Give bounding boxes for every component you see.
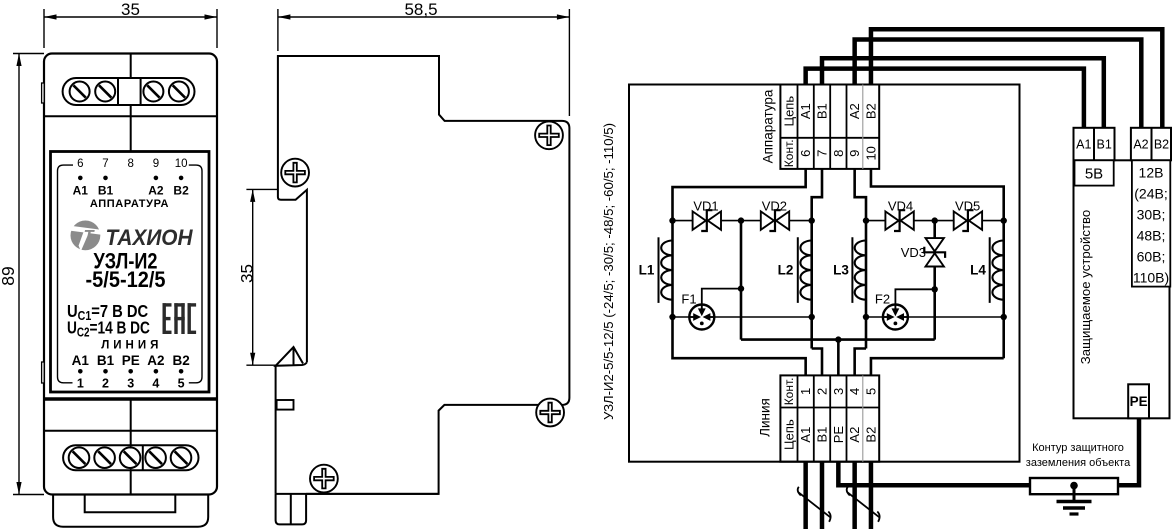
svg-text:A1: A1 [798,103,813,119]
screw bottom 5 [171,447,192,468]
screw bottom 2 [94,447,115,468]
svg-text:5: 5 [178,376,185,390]
screw top 1 [70,82,90,102]
svg-text:4: 4 [152,376,159,390]
svg-text:12В: 12В [1139,165,1164,181]
device terminals A1 B1 [1074,128,1115,161]
cable mark pair2 [847,487,880,522]
svg-text:9: 9 [153,158,159,170]
screw side C [310,465,338,493]
wire line A2 down [852,462,857,529]
svg-text:Конт.: Конт. [782,378,796,406]
svg-text:60В;: 60В; [1137,249,1166,265]
wire mid horizontal link [741,338,935,341]
svg-text:B1: B1 [1097,138,1112,152]
svg-text:4: 4 [847,388,862,395]
svg-text:3: 3 [831,388,846,395]
svg-text:АППАРАТУРА: АППАРАТУРА [90,198,169,210]
pin labels A1 B1 PE A2 B2 bottom [72,353,190,368]
screw side A [281,159,309,187]
svg-text:(24В;: (24В; [1134,186,1167,202]
svg-text:10: 10 [175,158,188,170]
ground bus bar [1030,478,1118,494]
screw bottom 4 [145,447,166,468]
svg-text:B2: B2 [863,103,878,119]
svg-text:6: 6 [77,158,83,170]
wire terminal6 to left rail [673,169,806,221]
wire VD row left [673,220,812,222]
svg-text:ТАХИОН: ТАХИОН [106,225,194,250]
screw bottom 1 [69,447,90,468]
svg-text:6: 6 [798,150,813,157]
svg-text:9: 9 [847,150,862,157]
svg-text:VD3: VD3 [901,245,926,260]
svg-text:B1: B1 [97,353,115,368]
svg-text:F1: F1 [681,292,696,307]
pin labels A1 B1 A2 B2 top [73,184,189,198]
protected device box [1074,160,1170,418]
svg-text:A2: A2 [847,103,862,119]
device 12V box [1132,160,1170,286]
screw bottom 3 [120,447,141,468]
svg-text:VD2: VD2 [762,198,787,213]
ground symbol [1057,482,1092,514]
wire B2 to device [871,29,1162,129]
wire terminal10 to right rail [871,169,1004,221]
wire left rail [671,221,674,317]
wire terminal7 to L2 rail [812,169,822,221]
svg-text:PE: PE [831,426,846,444]
svg-text:Контур защитного: Контур защитного [1032,442,1124,454]
wire PE to ground bus [838,462,1030,486]
module foot [53,495,208,527]
svg-text:VD1: VD1 [693,198,718,213]
svg-text:1: 1 [77,376,84,390]
wire F row right [866,316,1004,318]
svg-text:A2: A2 [847,427,862,443]
svg-text:B2: B2 [863,427,878,443]
terminal block Linia [780,375,879,461]
svg-text:Конт.: Конт. [782,139,796,167]
device terminals A2 B2 [1131,128,1171,161]
EAC mark [163,303,197,334]
svg-text:7: 7 [102,158,108,170]
svg-text:УЗЛ-И2-5/5-12/5 (-24/5; -30/5;: УЗЛ-И2-5/5-12/5 (-24/5; -30/5; -48/5; -6… [601,123,616,420]
wire F row left [673,316,812,318]
wire line B2 down [869,462,874,529]
svg-text:5: 5 [863,388,878,395]
wire F1 top link [702,289,741,317]
slot divider top [118,78,141,105]
device PE terminal [1128,384,1149,418]
svg-text:8: 8 [127,158,133,170]
svg-text:Л И Н И Я: Л И Н И Я [101,340,159,352]
pin numbers 1-5 [77,376,185,390]
svg-text:5В: 5В [1085,166,1103,183]
svg-text:VD4: VD4 [888,198,913,213]
terminal slot top [63,78,195,105]
wire right rail to terminal5 [871,358,1004,375]
svg-text:L2: L2 [778,263,794,278]
svg-text:PE: PE [1130,394,1148,409]
svg-text:58,5: 58,5 [404,0,437,19]
svg-text:2: 2 [102,376,109,390]
svg-text:10: 10 [863,146,878,160]
dimension 89 left [0,54,44,495]
svg-text:3: 3 [127,376,134,390]
wire F2 top link [895,289,934,317]
svg-text:A1: A1 [72,353,90,368]
svg-text:A2: A2 [1133,138,1148,152]
svg-text:30В;: 30В; [1137,207,1166,223]
terminal slot bottom [63,445,198,470]
diode VD1 [693,210,721,231]
inductor L2 [778,237,812,303]
svg-text:A2: A2 [148,184,164,198]
svg-text:Линия: Линия [758,398,773,437]
svg-text:48В;: 48В; [1137,228,1166,244]
pin numbers 6-10 [77,158,187,170]
wire device PE to ground bus [1118,418,1139,485]
wire line A1 down [803,462,808,529]
wire mid rail right circuit [933,221,936,340]
diode VD2 [761,210,789,231]
svg-text:8: 8 [831,150,846,157]
svg-text:-5/5-12/5: -5/5-12/5 [86,267,166,292]
arrester F1 [689,305,714,330]
svg-text:A2: A2 [147,353,164,368]
label plate [51,152,210,393]
dimension 35 side [238,189,278,365]
wire L3 rail to terminal4 [855,349,866,376]
svg-text:F2: F2 [875,292,890,307]
pin dots top [78,176,183,181]
device 5V box [1075,160,1114,185]
wire PE tap to terminal3 [837,340,840,376]
svg-text:89: 89 [0,266,18,285]
svg-text:2: 2 [815,388,830,395]
wire L2 rail to terminal2 [812,349,822,376]
wire L3 rail [865,221,868,349]
wire left rail to terminal1 [673,317,806,375]
label inner frame [58,165,203,383]
svg-text:VD5: VD5 [955,198,980,213]
svg-text:1: 1 [798,388,813,395]
svg-text:B1: B1 [815,427,830,443]
svg-text:B2: B2 [172,353,189,368]
svg-text:L3: L3 [833,263,849,278]
wire line B1 down [820,462,825,529]
svg-text:заземления объекта: заземления объекта [1026,457,1131,469]
svg-text:35: 35 [238,264,257,283]
wire A2 to device [855,40,1142,130]
module body front view [44,54,217,495]
wire right rail [1002,221,1005,359]
svg-text:110В): 110В) [1133,270,1169,286]
svg-text:L4: L4 [970,263,986,278]
svg-text:A1: A1 [1076,138,1091,152]
wire A1 to device [806,69,1084,128]
pin dots bottom [78,369,183,374]
svg-text:7: 7 [815,150,830,157]
svg-text:Защищаемое устройство: Защищаемое устройство [1078,210,1093,364]
side view profile [276,56,570,524]
svg-text:Цепь: Цепь [782,96,797,127]
svg-text:B1: B1 [98,184,114,198]
wire B1 to device [822,58,1104,128]
svg-text:Цепь: Цепь [782,419,797,450]
side notch bottom [42,362,45,383]
wire VD row right [866,220,1004,222]
svg-text:PE: PE [122,353,140,368]
svg-text:L1: L1 [639,263,655,278]
junction nodes [669,217,1007,342]
svg-text:B2: B2 [173,184,189,198]
screw side D [536,399,564,427]
svg-text:B1: B1 [815,103,830,119]
slot divider bottom [142,445,144,470]
diode VD4 [885,210,913,231]
diode VD3 [924,238,945,266]
svg-text:B2: B2 [1154,138,1169,152]
terminal block Apparatura [780,85,879,169]
svg-text:35: 35 [121,0,140,19]
arrester F2 [883,305,908,330]
diode VD5 [954,210,982,231]
cable mark pair1 [798,487,831,522]
svg-text:Аппаратура: Аппаратура [761,89,776,163]
svg-text:A1: A1 [798,427,813,443]
inductor L1 [639,237,673,303]
dimension 58,5 top [278,0,570,116]
inductor L4 [970,237,1004,303]
wire terminal9 to L3 rail [855,169,866,221]
inductor L3 [833,237,866,303]
svg-text:A1: A1 [73,184,89,198]
centre line stubs in slot [130,445,132,448]
screw top 3 [143,82,163,102]
wire L2 rail [810,221,813,349]
screw top 2 [95,82,115,102]
wire mid rail left circuit [740,221,743,340]
main device box [629,85,1020,462]
dimension 35 top [44,0,217,48]
screw top 4 [169,82,189,102]
logo Tachion circle [69,221,101,252]
side notch top [42,83,45,103]
screw side B [535,121,563,149]
